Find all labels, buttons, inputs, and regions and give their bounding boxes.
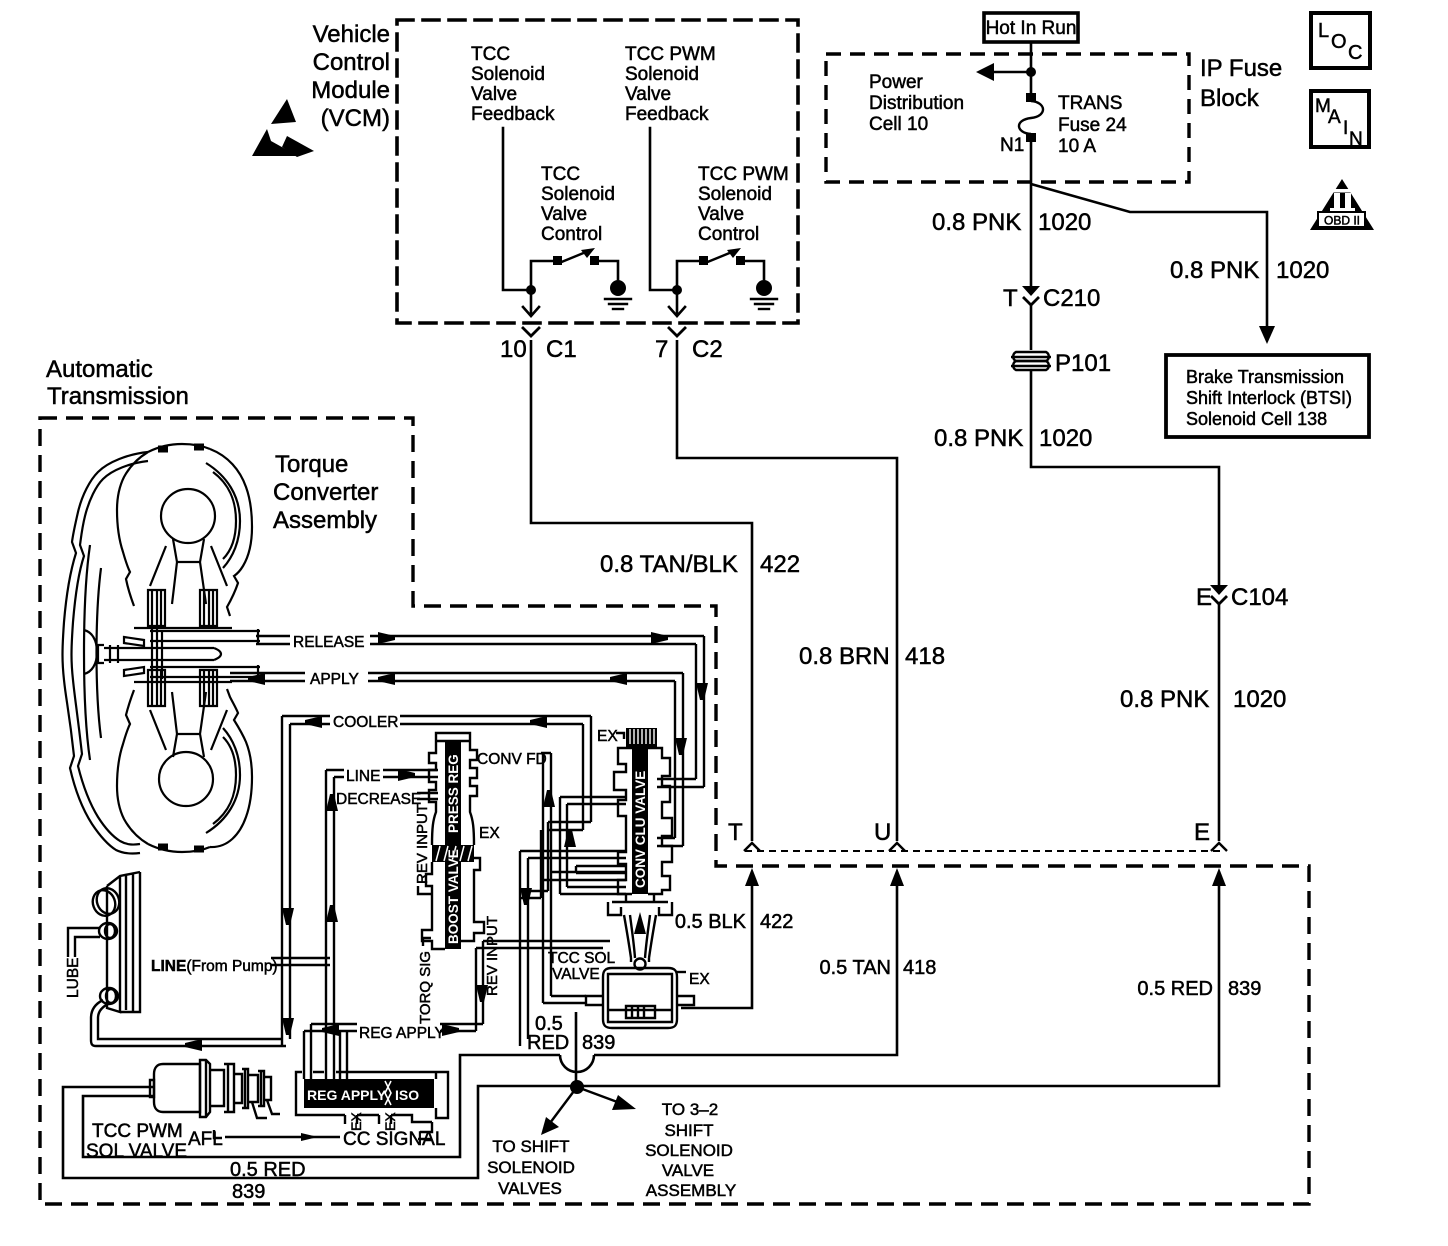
svg-text:839: 839 bbox=[1228, 978, 1261, 1000]
radiator upper fitting bbox=[99, 923, 117, 939]
flow arrow interconnect bbox=[520, 888, 532, 905]
svg-text:SOLENOID: SOLENOID bbox=[645, 1141, 733, 1160]
TCC Solenoid Valve Control label bbox=[541, 164, 615, 245]
flow arrows RELEASE bbox=[378, 632, 395, 644]
lower funnel bbox=[172, 692, 206, 757]
grommet P101 bbox=[1011, 352, 1051, 370]
svg-text:TCC: TCC bbox=[541, 164, 580, 185]
svg-text:Module: Module bbox=[311, 77, 390, 104]
hub shaft bbox=[104, 645, 221, 663]
wire E to junction (0.5 RED 839) bbox=[1212, 868, 1226, 886]
hub apply tube bbox=[150, 665, 260, 679]
svg-text:1020: 1020 bbox=[1039, 425, 1092, 452]
svg-text:E: E bbox=[1194, 819, 1210, 846]
svg-text:10 A: 10 A bbox=[1058, 136, 1096, 157]
pipe valve interconnect mid bbox=[576, 866, 626, 873]
svg-text:Converter: Converter bbox=[273, 479, 378, 506]
svg-text:VALVE: VALVE bbox=[662, 1161, 714, 1180]
wire TCC feedback bbox=[503, 128, 531, 290]
svg-text:Distribution: Distribution bbox=[869, 93, 964, 114]
svg-text:AFL: AFL bbox=[188, 1129, 223, 1150]
svg-text:P101: P101 bbox=[1055, 350, 1111, 377]
svg-text:422: 422 bbox=[760, 911, 793, 933]
upper torus inner circle bbox=[161, 489, 215, 543]
solenoid flange bbox=[200, 1060, 210, 1117]
svg-text:Brake Transmission: Brake Transmission bbox=[1186, 367, 1344, 387]
iso notch bbox=[385, 1081, 391, 1105]
TCC SOL body bbox=[603, 968, 677, 1028]
flow arrows REG APPLY bbox=[322, 1024, 339, 1036]
valve REG APPLY ISO outline bbox=[296, 1072, 448, 1132]
wire fuse output bbox=[1030, 142, 1033, 288]
svg-text:OBD II: OBD II bbox=[1324, 214, 1360, 228]
torus body right silhouette bbox=[210, 449, 252, 616]
svg-text:Block: Block bbox=[1200, 85, 1260, 112]
svg-text:Vehicle: Vehicle bbox=[313, 21, 390, 48]
cover interior arc 2 bbox=[97, 568, 102, 738]
svg-text:Feedback: Feedback bbox=[625, 104, 709, 125]
Torque Converter Assembly label bbox=[273, 451, 378, 534]
svg-text:IP Fuse: IP Fuse bbox=[1200, 55, 1282, 82]
fuse TRANS Fuse 24 bbox=[1026, 93, 1036, 102]
svg-text:418: 418 bbox=[905, 643, 945, 670]
wire branch to BTSI bbox=[1031, 184, 1267, 328]
valve spring blob bbox=[432, 845, 474, 862]
svg-text:VALVE: VALVE bbox=[552, 966, 600, 983]
valve CONV CLU hatched cap bbox=[626, 728, 657, 748]
svg-text:(VCM): (VCM) bbox=[321, 105, 390, 132]
svg-text:Valve: Valve bbox=[471, 84, 517, 105]
svg-text:REG APPLY: REG APPLY bbox=[359, 1025, 445, 1042]
svg-text:1020: 1020 bbox=[1276, 257, 1329, 284]
TCC Solenoid Valve Feedback label bbox=[471, 44, 555, 125]
cover interior arc 1 bbox=[84, 545, 90, 760]
svg-text:PRESS REG: PRESS REG bbox=[446, 754, 461, 833]
LOC box bbox=[1311, 13, 1370, 68]
pipe COOLER jog bbox=[520, 822, 548, 898]
hub shaft tip bbox=[98, 637, 144, 676]
svg-text:REG APPLY: REG APPLY bbox=[307, 1087, 387, 1103]
upper funnel bbox=[172, 539, 206, 604]
svg-text:10: 10 bbox=[500, 336, 527, 363]
svg-text:T: T bbox=[1003, 285, 1018, 312]
VCM dashed box bbox=[397, 20, 798, 323]
fine dashed connector line bbox=[745, 850, 1222, 852]
svg-text:SOL VALVE: SOL VALVE bbox=[86, 1141, 187, 1162]
svg-text:0.5 RED: 0.5 RED bbox=[230, 1159, 306, 1181]
wire C2 to U (0.8 BRN 418) bbox=[677, 340, 897, 841]
converter back cover outer edge bbox=[63, 452, 149, 854]
bracket TORQ SIG bbox=[423, 938, 431, 946]
upper torus crescent bbox=[206, 463, 240, 568]
arrow to 3-2 shift solenoid bbox=[577, 1087, 620, 1103]
svg-text:TCC PWM: TCC PWM bbox=[698, 164, 789, 185]
Hot In Run box bbox=[984, 13, 1078, 42]
top black tabs bbox=[158, 447, 204, 449]
svg-text:LUBE: LUBE bbox=[65, 958, 82, 999]
converter bottom edge bbox=[148, 844, 210, 852]
svg-text:U: U bbox=[874, 819, 891, 846]
svg-text:Valve: Valve bbox=[541, 204, 587, 225]
wire below P101 bbox=[1031, 370, 1219, 586]
valve PRESS REG / BOOST VALVE outline bbox=[422, 733, 484, 949]
pipe COOLER left vertical bbox=[282, 716, 290, 1046]
wire TCC PWM feedback bbox=[650, 128, 677, 290]
svg-text:Hot In Run: Hot In Run bbox=[986, 18, 1077, 39]
svg-text:TCC PWM: TCC PWM bbox=[625, 44, 716, 65]
svg-text:CC SIGNAL: CC SIGNAL bbox=[343, 1129, 445, 1150]
flow arrows APPLY bbox=[248, 673, 265, 685]
svg-text:Transmission: Transmission bbox=[47, 383, 189, 410]
svg-text:TCC SOL: TCC SOL bbox=[548, 950, 616, 967]
svg-text:EX: EX bbox=[689, 971, 710, 988]
svg-text:C210: C210 bbox=[1043, 285, 1100, 312]
svg-text:A: A bbox=[1328, 107, 1341, 128]
pipe RELEASE bbox=[256, 636, 704, 787]
ground TCC PWM switch bbox=[756, 280, 772, 296]
clutch hatch upper left bbox=[148, 590, 165, 626]
converter top edge bbox=[148, 444, 210, 452]
svg-text:C1: C1 bbox=[546, 336, 577, 363]
svg-text:CONV CLU VALVE: CONV CLU VALVE bbox=[633, 771, 648, 888]
svg-text:N: N bbox=[1349, 129, 1363, 150]
svg-text:SHIFT: SHIFT bbox=[664, 1121, 713, 1140]
TCC PWM Solenoid Valve Feedback label bbox=[625, 44, 716, 125]
transmission dashed boundary bbox=[40, 418, 1309, 1204]
upper spokes bbox=[150, 546, 227, 586]
svg-text:0.8 PNK: 0.8 PNK bbox=[1120, 686, 1209, 713]
wire bridge arc bbox=[560, 1055, 594, 1072]
bottom black tabs bbox=[158, 847, 204, 849]
pipe LINE to valve port bbox=[340, 1031, 347, 1079]
svg-text:1020: 1020 bbox=[1233, 686, 1286, 713]
hub release tube bbox=[150, 629, 260, 643]
pipe DECREASE bbox=[417, 793, 438, 799]
solenoid stepped stem bbox=[210, 1064, 271, 1112]
flow arrows COOLER bbox=[305, 716, 322, 728]
svg-text:Fuse 24: Fuse 24 bbox=[1058, 115, 1127, 136]
svg-text:TO SHIFT: TO SHIFT bbox=[492, 1137, 569, 1156]
hub collar marks bbox=[152, 628, 162, 682]
svg-text:0.5 RED: 0.5 RED bbox=[1137, 978, 1213, 1000]
svg-text:0.8 TAN/BLK: 0.8 TAN/BLK bbox=[600, 551, 738, 578]
valve CONV CLU VALVE outline bbox=[614, 748, 672, 894]
wire to transmission E bbox=[1218, 603, 1221, 841]
pipe valve interconnect upper bbox=[520, 851, 626, 1046]
svg-text:TRANS: TRANS bbox=[1058, 93, 1122, 114]
clutch hatch upper right bbox=[200, 590, 217, 626]
pipe conv clu left port Z bbox=[560, 797, 626, 894]
svg-text:ASSEMBLY: ASSEMBLY bbox=[646, 1181, 736, 1200]
pipe COOLER right vertical bbox=[548, 716, 591, 830]
svg-text:7: 7 bbox=[655, 336, 668, 363]
svg-text:839: 839 bbox=[232, 1181, 265, 1203]
lower torus inner circle bbox=[159, 752, 213, 806]
pipe COOLER top bbox=[290, 716, 591, 724]
svg-text:RED: RED bbox=[527, 1032, 569, 1054]
svg-text:TCC: TCC bbox=[471, 44, 510, 65]
pipe LUBE from radiator bbox=[68, 928, 100, 957]
svg-text:Control: Control bbox=[313, 49, 390, 76]
flow arrow CONV FD bbox=[543, 790, 555, 807]
TCC SOL pivot circle bbox=[635, 959, 646, 970]
wire U to TCC PWM SOL VALVE (0.5 TAN 418) bbox=[890, 868, 904, 886]
svg-text:Shift Interlock (BTSI): Shift Interlock (BTSI) bbox=[1186, 388, 1352, 408]
svg-text:C: C bbox=[1348, 42, 1362, 64]
svg-text:COOLER: COOLER bbox=[333, 714, 398, 731]
svg-text:EX: EX bbox=[479, 825, 500, 842]
svg-text:839: 839 bbox=[582, 1032, 615, 1054]
wire T to TCC SOL VALVE (0.5 BLK 422) bbox=[745, 868, 759, 886]
wire C1 to T (0.8 TAN/BLK 422) bbox=[531, 340, 752, 841]
pipe REG APPLY right bbox=[440, 941, 610, 1031]
radiator filler cap bbox=[89, 887, 119, 919]
wire TCC SOL VALVE to junction bbox=[575, 1012, 578, 1086]
svg-text:Control: Control bbox=[541, 224, 602, 245]
TCC PWM solenoid body bbox=[154, 1064, 200, 1112]
pipe APPLY bbox=[230, 673, 683, 846]
clutch hatch lower right bbox=[200, 670, 217, 706]
radiator lower fitting bbox=[100, 988, 118, 1004]
svg-text:0.5 BLK: 0.5 BLK bbox=[675, 911, 747, 933]
wire to P101 bbox=[1030, 304, 1033, 350]
svg-text:TO 3–2: TO 3–2 bbox=[662, 1100, 718, 1119]
svg-text:N1: N1 bbox=[1000, 135, 1024, 156]
valve CONV CLU black bar bbox=[632, 748, 648, 894]
valve PRESS REG black bar bbox=[445, 741, 461, 845]
bracket REV INPUT upper bbox=[418, 886, 433, 894]
svg-text:APPLY: APPLY bbox=[310, 671, 359, 688]
TCC SOL hatch box bbox=[608, 1006, 672, 1018]
svg-text:RELEASE: RELEASE bbox=[293, 634, 365, 651]
svg-text:418: 418 bbox=[903, 957, 936, 979]
flow arrow CC SIGNAL bbox=[301, 1133, 318, 1141]
TCC SOL mounting tabs bbox=[586, 996, 694, 1005]
svg-text:0.8 BRN: 0.8 BRN bbox=[799, 643, 890, 670]
wire from Hot In Run bbox=[1030, 42, 1033, 95]
bracket EX conv clu bbox=[616, 733, 624, 739]
cover hub pocket bbox=[84, 630, 97, 674]
svg-text:E: E bbox=[1196, 584, 1212, 611]
arrow to Power Distribution bbox=[992, 71, 1031, 74]
arrow to shift solenoid valves bbox=[550, 1087, 577, 1123]
svg-text:Valve: Valve bbox=[625, 84, 671, 105]
ESD hand symbol bbox=[252, 99, 314, 157]
svg-text:C2: C2 bbox=[692, 336, 723, 363]
pipe CC SIGNAL bbox=[214, 1130, 432, 1139]
clutch hatch lower left bbox=[148, 670, 165, 706]
MAIN box bbox=[1311, 91, 1369, 147]
valve TCC SOL funnel bbox=[608, 894, 672, 962]
svg-text:LINE: LINE bbox=[346, 768, 380, 785]
connector pin 7 C2 bbox=[669, 328, 685, 336]
svg-text:Solenoid: Solenoid bbox=[625, 64, 699, 85]
connector pin 10 C1 bbox=[523, 328, 539, 336]
node power junction bbox=[1026, 67, 1036, 77]
OBD II symbol bbox=[1310, 179, 1374, 230]
flow arrows LINE bbox=[398, 769, 415, 781]
svg-text:0.8 PNK: 0.8 PNK bbox=[1170, 257, 1259, 284]
arrow down to C2 bbox=[676, 290, 679, 315]
svg-text:Solenoid: Solenoid bbox=[471, 64, 545, 85]
valve REG APPLY ISO black bar bbox=[304, 1079, 434, 1108]
IP Fuse Block dashed box bbox=[826, 54, 1189, 182]
svg-text:LINE(From Pump): LINE(From Pump) bbox=[151, 958, 278, 975]
svg-text:0.8 PNK: 0.8 PNK bbox=[932, 209, 1021, 236]
solenoid nose bbox=[252, 1100, 280, 1118]
node TCC junction bbox=[526, 285, 536, 295]
pipe LINE vertical bbox=[326, 770, 334, 1079]
lower spokes bbox=[150, 710, 227, 750]
svg-text:TCC PWM: TCC PWM bbox=[92, 1121, 183, 1142]
pipe LINE bbox=[326, 770, 438, 777]
svg-text:Power: Power bbox=[869, 72, 924, 93]
svg-text:Valve: Valve bbox=[698, 204, 744, 225]
node TCC PWM junction bbox=[672, 285, 682, 295]
svg-text:Solenoid: Solenoid bbox=[541, 184, 615, 205]
svg-text:ISO: ISO bbox=[395, 1087, 419, 1103]
ground TCC switch bbox=[610, 280, 626, 296]
pipe radiator to cooler line bbox=[91, 1000, 286, 1046]
svg-text:CONV FD: CONV FD bbox=[477, 751, 547, 768]
svg-text:Automatic: Automatic bbox=[46, 356, 153, 383]
bracket EX TCC SOL bbox=[677, 971, 686, 973]
svg-text:0.5 TAN: 0.5 TAN bbox=[819, 957, 891, 979]
svg-text:422: 422 bbox=[760, 551, 800, 578]
svg-text:1020: 1020 bbox=[1038, 209, 1091, 236]
valve BOOST VALVE black bar bbox=[445, 862, 461, 949]
TCC PWM Solenoid Valve Control label bbox=[698, 164, 789, 245]
svg-text:Solenoid Cell 138: Solenoid Cell 138 bbox=[1186, 409, 1327, 429]
converter back cover inner edge bbox=[72, 461, 149, 845]
switch TCC solenoid valve control bbox=[531, 261, 618, 290]
pipe LINE(From Pump) stub bbox=[271, 958, 330, 965]
svg-text:0.8 PNK: 0.8 PNK bbox=[934, 425, 1023, 452]
svg-text:Cell 10: Cell 10 bbox=[869, 114, 928, 135]
svg-text:TORQ SIG: TORQ SIG bbox=[417, 951, 434, 1024]
svg-text:C104: C104 bbox=[1231, 584, 1288, 611]
svg-text:BOOST VALVE: BOOST VALVE bbox=[446, 849, 461, 944]
switch TCC PWM solenoid valve control bbox=[677, 261, 764, 290]
svg-text:REV INPUT: REV INPUT bbox=[414, 804, 431, 884]
svg-text:O: O bbox=[1331, 31, 1347, 53]
BTSI box bbox=[1166, 355, 1369, 437]
svg-text:L: L bbox=[1318, 20, 1329, 42]
svg-text:REV INPUT: REV INPUT bbox=[484, 916, 501, 996]
svg-text:Solenoid: Solenoid bbox=[698, 184, 772, 205]
svg-text:Torque: Torque bbox=[275, 451, 348, 478]
pipe REG APPLY left bbox=[304, 1024, 357, 1079]
torus body left silhouette bbox=[117, 452, 148, 606]
svg-text:DECREASE: DECREASE bbox=[336, 791, 421, 808]
svg-text:Assembly: Assembly bbox=[273, 507, 377, 534]
pipe CONV FD bbox=[541, 753, 626, 1003]
svg-text:EX: EX bbox=[597, 728, 618, 745]
radiator body bbox=[107, 872, 140, 1012]
svg-text:VALVES: VALVES bbox=[498, 1179, 562, 1198]
svg-text:I: I bbox=[1343, 118, 1348, 139]
svg-text:SOLENOID: SOLENOID bbox=[487, 1158, 575, 1177]
arrow down to C1 bbox=[530, 290, 533, 315]
hub top edge bbox=[134, 628, 232, 682]
svg-text:Control: Control bbox=[698, 224, 759, 245]
arrow in TCC SOL funnel bbox=[634, 912, 646, 934]
svg-text:T: T bbox=[728, 819, 743, 846]
lower torus crescent bbox=[206, 728, 240, 833]
VCM label bbox=[311, 21, 390, 132]
svg-text:Feedback: Feedback bbox=[471, 104, 555, 125]
node splice junction bbox=[570, 1080, 584, 1094]
